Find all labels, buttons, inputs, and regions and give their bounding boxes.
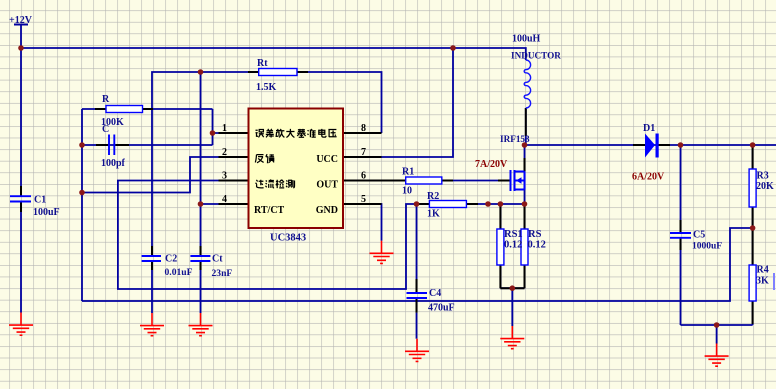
capacitor C 100pf plates [109,135,114,156]
wire R3 column [752,145,754,228]
resistor RS 0.12 [521,229,528,265]
char 差 [266,129,274,138]
wire RS1 column [499,204,501,288]
ground under C2 [140,313,164,336]
svg-text:6A/20V: 6A/20V [632,172,665,183]
junction C row / left vertical [79,142,85,148]
wire bottom right bar [681,324,753,326]
svg-text:1.5K: 1.5K [256,82,277,93]
wire mosfet source [524,190,526,205]
svg-text:OUT: OUT [316,180,338,191]
ground under C1 [9,313,33,336]
junction RS1 top [498,201,504,207]
wire feedback row y192 [82,157,249,193]
svg-text:R4: R4 [757,265,769,276]
svg-text:UC3843: UC3843 [270,233,306,244]
wire pin3 current sense path [118,181,430,290]
junction rail / UCC drop [450,45,456,51]
svg-text:1: 1 [222,123,227,134]
svg-text:R3: R3 [757,171,769,182]
junction +12V rail / C1 [18,45,24,51]
wire line A feedback long [82,228,753,301]
wire R4 column [752,228,754,325]
ground under C5 output [705,344,729,367]
IC label CJK row1 误差放大 基准电压 [256,129,337,138]
svg-text:10: 10 [402,186,412,197]
char 馈 [266,154,274,162]
char 过 [255,180,263,188]
wire UCC drop x453 to pin7 [343,48,453,157]
svg-text:1K: 1K [427,209,440,220]
svg-text:100uH: 100uH [512,34,541,45]
char 放 [276,129,284,138]
component leads black [95,108,153,110]
wire pin6 to R1 to gate [343,180,511,182]
wire C4 lower to ground [416,313,418,339]
svg-text:Rt: Rt [257,58,268,69]
svg-text:C2: C2 [165,254,177,265]
wire loop right vertical to pin1 [212,109,214,145]
ground under C4 [405,339,429,362]
transistor Q1 IRF153 mosfet [511,170,525,191]
wire R loop top [82,108,213,110]
inductor L1 100uH coil [524,60,530,108]
svg-text:0.12: 0.12 [528,240,546,251]
svg-text:0.01uF: 0.01uF [165,267,193,278]
wire inductor bottom to drain node [525,108,527,145]
power port +12V bar [14,24,28,26]
svg-text:D1: D1 [643,123,655,134]
svg-text:C5: C5 [693,230,705,241]
char 压 [328,130,336,138]
ground under RS sense resistors [500,326,524,349]
junction FB row / left vertical [79,190,85,196]
char 检 [276,180,284,188]
wire C4 drop [416,204,418,293]
junction drain / inductor [522,142,528,148]
junction output rail / R3 [750,142,756,148]
svg-text:GND: GND [316,205,338,216]
IC label CJK row2 反馈 [255,154,274,163]
wire Rt-node down to pin4 [200,72,202,204]
wire R/C loop left vertical [81,109,83,301]
resistor R4 3K [749,265,756,301]
wire pin4 to stub [201,203,249,205]
junction Vref line / RT-CT vertical [198,69,204,75]
wire mosfet drain [524,145,526,172]
svg-text:6: 6 [361,171,366,182]
svg-text:RS: RS [528,229,542,240]
resistor R 100K [106,106,143,113]
resistor Rt 1.5K [259,69,297,76]
resistor R3 20K [749,169,756,207]
svg-text:3K: 3K [756,276,769,287]
junction output rail / C5 [678,142,684,148]
diode D1 6A/20V [645,134,655,158]
ground under pin5 GND [370,241,394,264]
svg-text:UCC: UCC [316,154,338,165]
svg-text:IRF153: IRF153 [500,134,530,144]
junction RS bottom / ground [510,285,516,291]
wire RS column [524,204,526,288]
svg-text:5: 5 [361,194,366,205]
wire C 100pf row [82,144,213,146]
svg-text:3: 3 [222,171,227,182]
svg-text:470uF: 470uF [428,303,455,314]
junction pin1 COMP node [210,130,216,136]
svg-text:8: 8 [361,123,366,134]
svg-text:7A/20V: 7A/20V [475,159,508,170]
wire Vref node left to C2 [152,72,259,255]
wire output rail [525,144,776,146]
junction C4 / R2 node [414,201,420,207]
svg-text:R2: R2 [427,191,439,202]
svg-text:R: R [102,94,110,105]
svg-text:100pf: 100pf [101,158,126,169]
svg-text:C4: C4 [429,288,441,299]
svg-text:23nF: 23nF [212,268,233,279]
svg-text:100uF: 100uF [33,207,60,218]
char 基 [297,129,305,137]
wire RS bottom bar [500,287,524,289]
pin stubs black [21,72,753,324]
svg-text:C: C [102,124,109,135]
junction R3/R4 divider [750,225,756,231]
IC label CJK row3 过流检测 [255,180,294,189]
svg-text:4: 4 [222,194,227,205]
svg-text:RS1: RS1 [504,229,523,240]
svg-text:20K: 20K [756,181,774,192]
IC U1 UC3843 box [249,109,344,229]
wire C2 bottom to ground [151,270,153,313]
svg-text:7: 7 [361,147,366,158]
svg-text:0.12: 0.12 [504,240,522,251]
char 准 [308,129,316,137]
char 大 [286,129,294,138]
ground under Ct [189,313,213,336]
junction C5 bottom / ground [714,322,720,328]
capacitor Ct 23nF plates [190,256,210,261]
wire pin1 stub link [213,132,249,134]
char 电 [319,129,326,137]
wire RS ground stem [511,288,513,326]
capacitor C4 470uF plates [407,293,428,298]
wire Ct down from pin4 [200,204,202,255]
char 反 [255,155,263,163]
resistor RS1 0.12 [497,229,504,265]
wire R2 right to sense node [466,203,524,205]
capacitor C2 0.01uF plates [142,256,161,261]
svg-text:R1: R1 [402,167,414,178]
wire C1 branch down [20,48,22,313]
wire pin5 to ground [343,204,382,241]
wire top rail to inductor [21,48,526,60]
svg-text:2: 2 [222,147,227,158]
svg-text:C1: C1 [34,195,46,206]
svg-text:1000uF: 1000uF [692,242,722,252]
resistor R2 1K [429,201,466,208]
resistor R1 10 [406,177,442,184]
junction pin4 RT/CT node [198,201,204,207]
wire C5 ground stem [716,325,718,344]
svg-text:Ct: Ct [212,254,223,265]
char 流 [266,180,275,188]
junction sense line [485,201,491,207]
char 测 [286,180,294,188]
wire Ct bottom to ground [200,270,202,313]
svg-text:INDUCTOR: INDUCTOR [511,51,561,61]
capacitor C1 100uF plates [10,196,31,201]
svg-text:+12V: +12V [9,15,33,26]
svg-text:RT/CT: RT/CT [254,205,285,216]
capacitor C5 1000uF plates [670,233,691,238]
junction RS top / source [522,201,528,207]
wire C5 drop [680,145,682,325]
wire +12V stem [20,25,22,48]
wire pin8 up to Rt [259,72,382,133]
char 误 [256,130,264,138]
right edge artifact [773,273,775,290]
